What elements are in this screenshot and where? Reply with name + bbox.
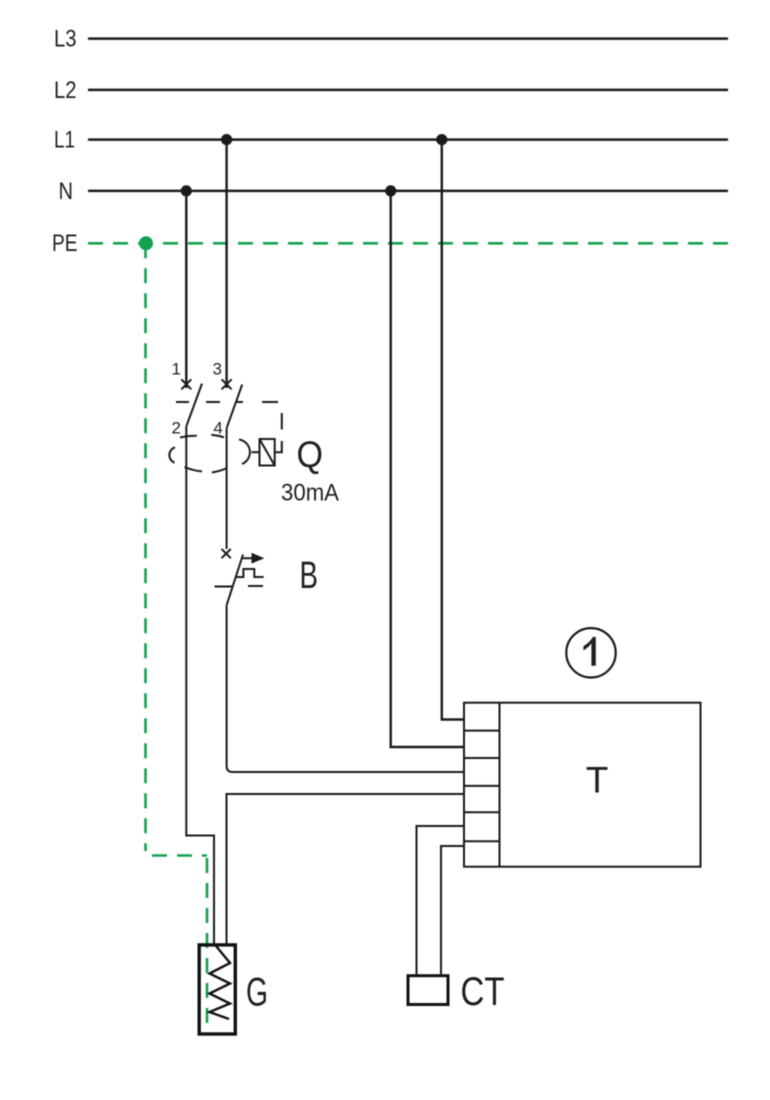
svg-text:3: 3 bbox=[213, 360, 222, 379]
svg-text:L1: L1 bbox=[54, 127, 75, 154]
svg-text:PE: PE bbox=[52, 230, 78, 257]
svg-text:1: 1 bbox=[172, 360, 181, 379]
svg-text:T: T bbox=[586, 760, 609, 801]
svg-text:G: G bbox=[246, 971, 268, 1015]
svg-text:L2: L2 bbox=[54, 77, 77, 104]
svg-text:4: 4 bbox=[213, 419, 222, 438]
svg-text:Q: Q bbox=[297, 434, 324, 475]
svg-text:CT: CT bbox=[461, 970, 505, 1014]
svg-text:B: B bbox=[300, 555, 319, 597]
svg-text:L3: L3 bbox=[54, 26, 77, 53]
svg-text:2: 2 bbox=[172, 419, 181, 438]
svg-text:30mA: 30mA bbox=[281, 480, 339, 507]
svg-text:N: N bbox=[59, 178, 74, 205]
